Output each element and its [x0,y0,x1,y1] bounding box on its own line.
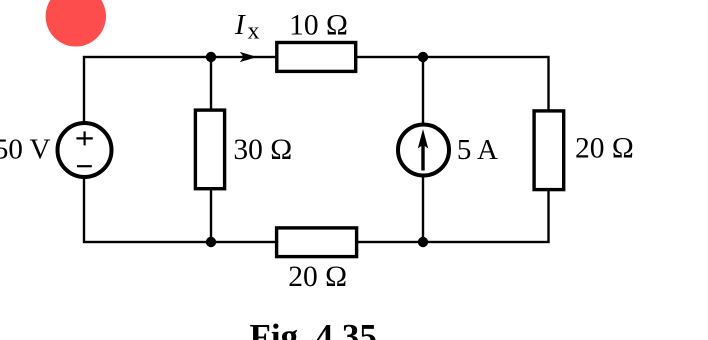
svg-text:20 Ω: 20 Ω [288,261,347,293]
svg-text:5 A: 5 A [457,134,498,166]
svg-text:20 Ω: 20 Ω [575,133,634,165]
svg-text:30 Ω: 30 Ω [233,134,292,166]
svg-text:I: I [234,9,246,41]
svg-text:Fig. 4.35: Fig. 4.35 [250,317,377,340]
svg-text:10 Ω: 10 Ω [289,10,348,42]
svg-text:50 V: 50 V [0,133,51,165]
svg-text:x: x [248,18,260,44]
